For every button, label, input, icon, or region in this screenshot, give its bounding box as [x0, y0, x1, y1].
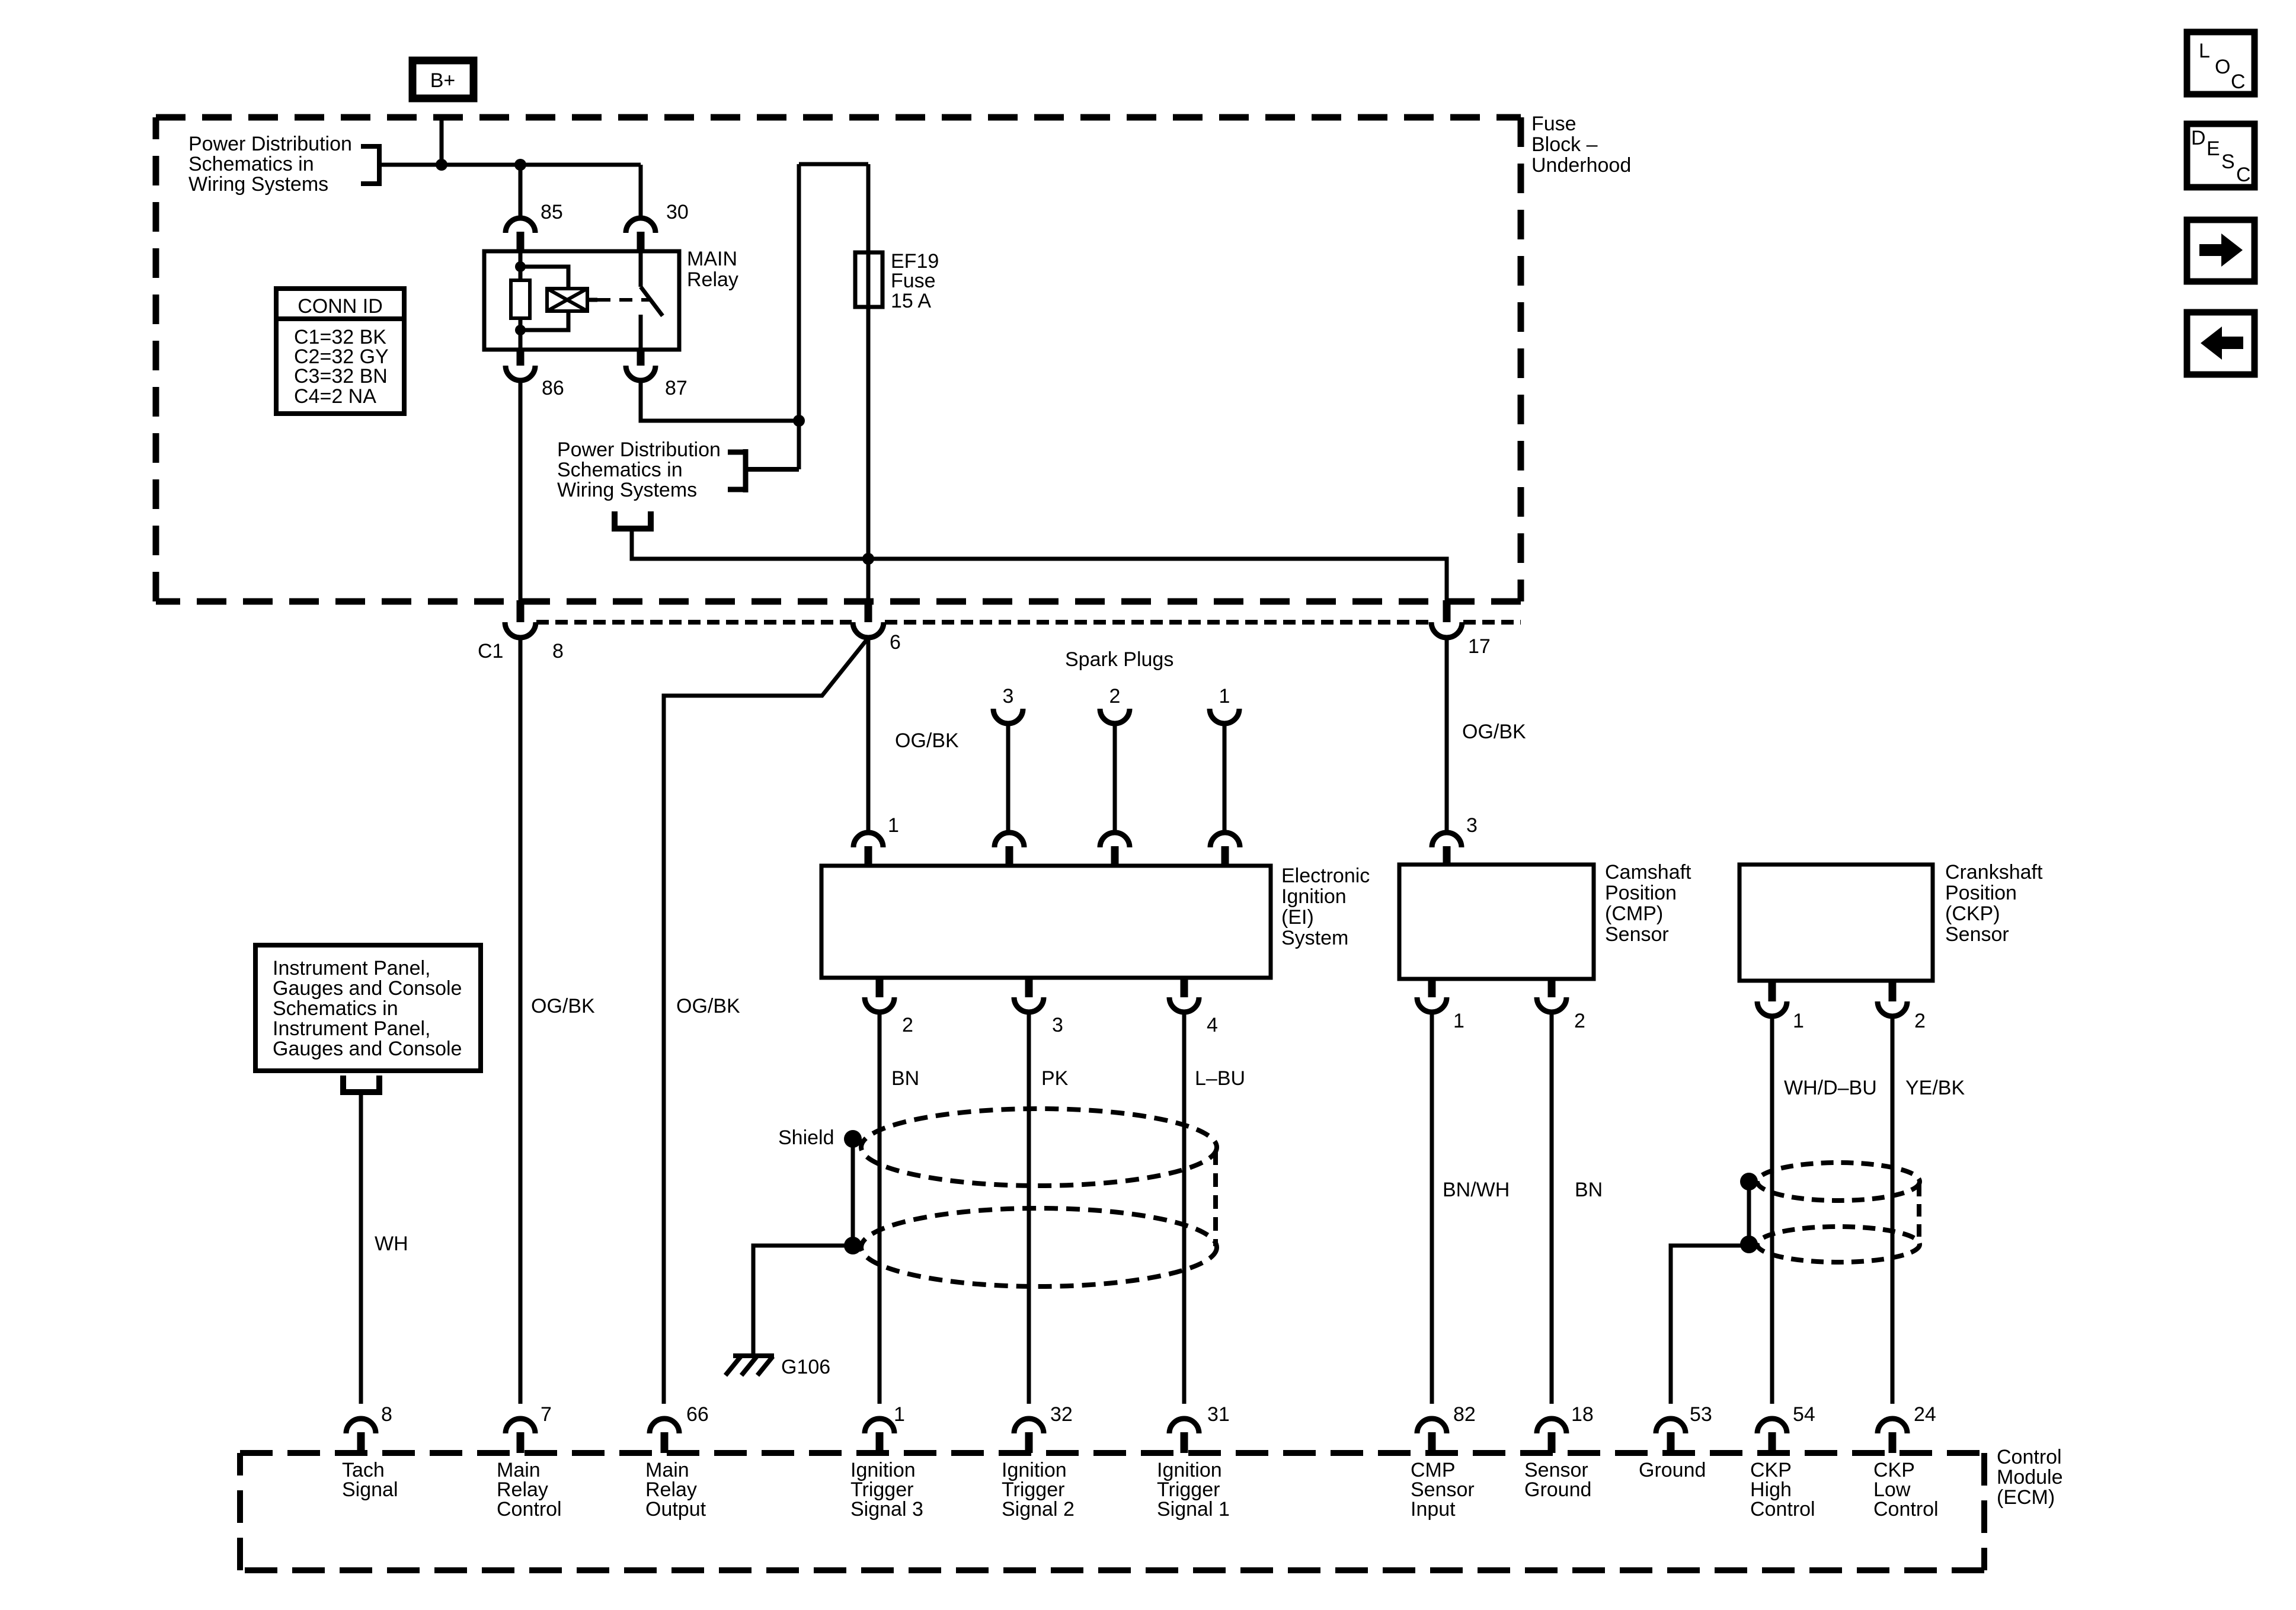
svg-text:Block –: Block – — [1531, 133, 1598, 156]
svg-text:Crankshaft: Crankshaft — [1945, 861, 2043, 884]
svg-text:85: 85 — [541, 201, 563, 223]
svg-text:Ignition: Ignition — [1281, 885, 1347, 908]
svg-text:Electronic: Electronic — [1281, 865, 1370, 887]
svg-text:1: 1 — [1793, 1010, 1804, 1032]
svg-text:WH/D–BU: WH/D–BU — [1784, 1077, 1877, 1099]
svg-text:C4=2 NA: C4=2 NA — [294, 385, 376, 408]
svg-text:Schematics in: Schematics in — [557, 459, 683, 481]
svg-text:OG/BK: OG/BK — [676, 995, 740, 1017]
svg-text:OG/BK: OG/BK — [531, 995, 595, 1017]
svg-text:Wiring Systems: Wiring Systems — [188, 173, 328, 196]
svg-text:53: 53 — [1690, 1403, 1712, 1426]
svg-text:Underhood: Underhood — [1531, 154, 1631, 177]
svg-text:Fuse: Fuse — [1531, 113, 1576, 135]
svg-text:30: 30 — [666, 201, 689, 223]
svg-text:66: 66 — [686, 1403, 709, 1426]
svg-text:3: 3 — [1052, 1014, 1063, 1036]
svg-text:(CMP): (CMP) — [1605, 902, 1663, 925]
svg-text:L: L — [2199, 40, 2210, 62]
svg-text:O: O — [2215, 56, 2230, 78]
svg-text:Sensor: Sensor — [1945, 923, 2009, 946]
svg-text:7: 7 — [541, 1403, 552, 1426]
svg-text:2: 2 — [1109, 685, 1121, 708]
svg-text:Gauges and Console: Gauges and Console — [273, 1038, 462, 1060]
svg-text:Output: Output — [645, 1498, 706, 1521]
svg-text:OG/BK: OG/BK — [1462, 721, 1526, 743]
svg-text:Sensor: Sensor — [1605, 923, 1669, 946]
svg-text:Spark Plugs: Spark Plugs — [1065, 648, 1173, 671]
svg-text:Signal 3: Signal 3 — [850, 1498, 923, 1521]
svg-text:YE/BK: YE/BK — [1905, 1077, 1965, 1099]
svg-text:82: 82 — [1453, 1403, 1476, 1426]
svg-text:1: 1 — [1453, 1010, 1464, 1032]
svg-text:PK: PK — [1041, 1067, 1069, 1090]
svg-text:E: E — [2207, 137, 2220, 160]
svg-text:(ECM): (ECM) — [1997, 1486, 2055, 1509]
svg-text:MAIN: MAIN — [687, 248, 737, 270]
svg-text:BN/WH: BN/WH — [1443, 1179, 1510, 1201]
svg-text:Signal: Signal — [342, 1478, 398, 1501]
svg-text:S: S — [2221, 151, 2235, 173]
svg-text:BN: BN — [1575, 1179, 1603, 1201]
svg-text:Control: Control — [497, 1498, 562, 1521]
svg-text:Control: Control — [1997, 1446, 2062, 1468]
svg-text:8: 8 — [552, 640, 564, 662]
svg-text:C1: C1 — [478, 640, 503, 662]
svg-text:C3=32 BN: C3=32 BN — [294, 365, 388, 388]
svg-text:1: 1 — [888, 814, 899, 837]
svg-text:1: 1 — [1219, 685, 1230, 708]
svg-text:Position: Position — [1945, 882, 2017, 904]
svg-text:BN: BN — [891, 1067, 919, 1090]
svg-text:System: System — [1281, 927, 1348, 949]
svg-text:WH: WH — [375, 1233, 408, 1255]
svg-text:Schematics in: Schematics in — [188, 153, 314, 175]
svg-text:Schematics in: Schematics in — [273, 997, 398, 1020]
svg-text:3: 3 — [1466, 814, 1478, 837]
svg-text:18: 18 — [1571, 1403, 1594, 1426]
svg-text:Fuse: Fuse — [891, 270, 936, 292]
svg-text:Position: Position — [1605, 882, 1677, 904]
svg-text:17: 17 — [1468, 635, 1491, 658]
svg-text:87: 87 — [665, 377, 687, 399]
svg-text:L–BU: L–BU — [1195, 1067, 1245, 1090]
svg-text:(EI): (EI) — [1281, 906, 1314, 929]
svg-text:24: 24 — [1914, 1403, 1936, 1426]
svg-text:2: 2 — [902, 1014, 913, 1036]
svg-text:Control: Control — [1750, 1498, 1815, 1521]
svg-text:Instrument Panel,: Instrument Panel, — [273, 957, 430, 980]
svg-text:OG/BK: OG/BK — [895, 729, 959, 752]
svg-text:Signal 2: Signal 2 — [1002, 1498, 1075, 1521]
svg-text:32: 32 — [1050, 1403, 1073, 1426]
svg-text:Signal 1: Signal 1 — [1157, 1498, 1230, 1521]
svg-text:G106: G106 — [781, 1356, 830, 1378]
svg-text:Module: Module — [1997, 1466, 2063, 1489]
svg-text:15 A: 15 A — [891, 290, 931, 312]
svg-text:Input: Input — [1411, 1498, 1456, 1521]
svg-text:31: 31 — [1207, 1403, 1230, 1426]
svg-text:Ground: Ground — [1524, 1478, 1591, 1501]
svg-text:Shield: Shield — [778, 1126, 834, 1149]
svg-text:2: 2 — [1914, 1010, 1926, 1032]
svg-text:86: 86 — [542, 377, 564, 399]
svg-text:C: C — [2231, 71, 2246, 93]
svg-text:3: 3 — [1003, 685, 1014, 708]
svg-text:B+: B+ — [430, 69, 456, 92]
svg-text:Control: Control — [1873, 1498, 1939, 1521]
svg-text:D: D — [2191, 127, 2206, 149]
svg-text:1: 1 — [894, 1403, 905, 1426]
svg-text:C: C — [2236, 164, 2251, 186]
svg-text:2: 2 — [1574, 1010, 1585, 1032]
svg-text:Instrument Panel,: Instrument Panel, — [273, 1017, 430, 1040]
svg-text:(CKP): (CKP) — [1945, 902, 2000, 925]
svg-text:4: 4 — [1207, 1014, 1218, 1036]
svg-text:6: 6 — [890, 631, 901, 654]
svg-text:Ground: Ground — [1639, 1459, 1706, 1481]
svg-text:8: 8 — [381, 1403, 392, 1426]
svg-text:Power Distribution: Power Distribution — [557, 438, 721, 461]
svg-text:54: 54 — [1793, 1403, 1815, 1426]
svg-text:Camshaft: Camshaft — [1605, 861, 1691, 884]
svg-text:Gauges and Console: Gauges and Console — [273, 977, 462, 1000]
svg-text:Wiring Systems: Wiring Systems — [557, 479, 697, 501]
svg-text:Relay: Relay — [687, 268, 738, 291]
svg-text:CONN ID: CONN ID — [298, 295, 383, 318]
svg-text:Power Distribution: Power Distribution — [188, 133, 352, 155]
